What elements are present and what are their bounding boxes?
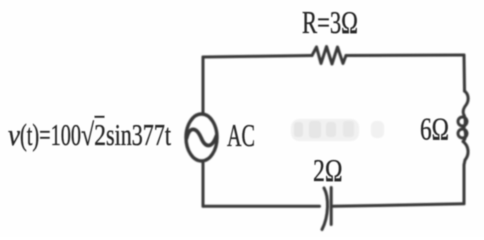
faint ghost smudge in centre [291,119,384,141]
capacitor plate right (straight) [330,188,333,225]
inductor loop 1 [458,117,467,126]
wire bottom right of capacitor [334,204,465,207]
wire left below source [202,161,205,206]
svg-text:AC: AC [227,117,255,153]
svg-text:v: v [8,117,20,152]
svg-text:R=3Ω: R=3Ω [302,4,358,40]
AC source sine wave [187,129,217,145]
svg-text:2Ω: 2Ω [313,152,343,188]
wire top horizontal left of resistor [203,56,312,58]
AC source circle [186,114,217,161]
inductor loop 2 [458,129,467,138]
svg-text:6Ω: 6Ω [420,111,449,147]
svg-text:(t)=100: (t)=100 [20,117,81,152]
svg-text:√2: √2 [81,117,106,152]
resistor R (zigzag) [312,47,346,65]
wire bottom left of capacitor [203,205,320,208]
label v(t)=100*sqrt(2)*sin377t [8,117,171,152]
wire right above inductor [463,55,467,91]
wire right below inductor [463,165,466,204]
capacitor plate left (curved) [322,188,328,230]
svg-text:sin377t: sin377t [106,117,171,152]
wire top horizontal right of resistor [346,54,464,58]
wire top-left segment [202,57,205,114]
inductor L (6 ohm coil) [463,91,468,165]
